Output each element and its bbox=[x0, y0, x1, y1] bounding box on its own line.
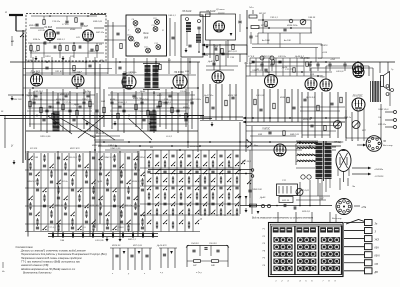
svg-text:Л4 6П3: Л4 6П3 bbox=[319, 44, 328, 47]
svg-text:СВ31 25,0: СВ31 25,0 bbox=[378, 109, 389, 111]
svg-text:R14 2к: R14 2к bbox=[33, 38, 41, 41]
svg-text:R6 1М: R6 1М bbox=[259, 13, 266, 15]
svg-text:КВ-II: КВ-II bbox=[375, 255, 380, 258]
svg-text:C15 51к: C15 51к bbox=[52, 21, 61, 23]
svg-text:C17 2к: C17 2к bbox=[64, 102, 72, 104]
svg-text:КВ48: КВ48 bbox=[70, 28, 76, 31]
svg-text:~127/220: ~127/220 bbox=[374, 176, 384, 178]
svg-text:C30 5,1: C30 5,1 bbox=[270, 17, 278, 19]
svg-text:КВ36 220к: КВ36 220к bbox=[287, 25, 298, 27]
svg-text:КВ16 30: КВ16 30 bbox=[112, 245, 121, 247]
svg-text:C43 5,1: C43 5,1 bbox=[168, 14, 176, 17]
svg-text:ДВ: ДВ bbox=[374, 271, 379, 274]
svg-text:Вид на клавишные переключатели: Вид на клавишные переключатели со сторон… bbox=[252, 217, 314, 220]
svg-text:Др10 6,8: Др10 6,8 bbox=[305, 97, 316, 99]
svg-text:C27 0,01: C27 0,01 bbox=[300, 190, 310, 192]
svg-text:С49 30: С49 30 bbox=[308, 16, 316, 19]
svg-text:Ав 1986: Ав 1986 bbox=[261, 39, 271, 42]
svg-text:СВ: СВ bbox=[375, 263, 379, 266]
svg-text:Л7 5Ц4С: Л7 5Ц4С bbox=[333, 141, 344, 144]
svg-text:C43 25,0: C43 25,0 bbox=[34, 90, 44, 93]
svg-text:КВ10 220к: КВ10 220к bbox=[190, 146, 201, 148]
svg-text:Блок: Блок bbox=[143, 32, 149, 35]
svg-text:СВ36 100: СВ36 100 bbox=[252, 189, 263, 191]
svg-text:СВ29 100: СВ29 100 bbox=[262, 56, 273, 58]
svg-text:СВ1 470: СВ1 470 bbox=[55, 70, 64, 73]
svg-text:Др43: Др43 bbox=[139, 90, 146, 93]
svg-text:Др15 470: Др15 470 bbox=[156, 244, 167, 247]
svg-text:Лм: Лм bbox=[351, 186, 355, 188]
svg-text:R1 2к: R1 2к bbox=[62, 181, 69, 183]
svg-text:КВ28 1М: КВ28 1М bbox=[228, 95, 237, 97]
svg-text:С54 051: С54 051 bbox=[191, 242, 199, 245]
svg-text:Л1 6К3: Л1 6К3 bbox=[43, 26, 53, 29]
svg-text:Вид снизу: Вид снизу bbox=[332, 217, 343, 220]
svg-text:C48 0,1: C48 0,1 bbox=[108, 144, 116, 147]
svg-text:СВ42 5,1: СВ42 5,1 bbox=[104, 156, 114, 159]
svg-text:Детали со знаком(*) отмечены т: Детали со знаком(*) отмечены токами выбо… bbox=[20, 250, 86, 253]
svg-text:Л 6П3С: Л 6П3С bbox=[261, 129, 270, 131]
svg-text:х Гр у: х Гр у bbox=[195, 272, 203, 274]
svg-text:+250/30в: +250/30в bbox=[374, 169, 384, 171]
svg-text:L7 6,8: L7 6,8 bbox=[248, 56, 255, 58]
svg-text:Переключатели для работы у диа: Переключатели для работы у диапазонов В … bbox=[21, 253, 107, 256]
svg-text:C11 470: C11 470 bbox=[285, 68, 294, 71]
svg-text:А: А bbox=[4, 10, 7, 14]
svg-text:R23 6,8: R23 6,8 bbox=[302, 211, 310, 213]
svg-text:КВ17 470: КВ17 470 bbox=[70, 147, 80, 150]
svg-text:КВ-I: КВ-I bbox=[375, 247, 380, 250]
svg-text:КВ36 0,1: КВ36 0,1 bbox=[132, 181, 142, 183]
svg-text:КВ16 2к: КВ16 2к bbox=[303, 119, 312, 121]
svg-text:КВ7 0,01: КВ7 0,01 bbox=[228, 51, 238, 53]
svg-text:Л3 6А10: Л3 6А10 bbox=[181, 10, 192, 13]
svg-text:Др6 5,1: Др6 5,1 bbox=[29, 51, 38, 53]
svg-text:C5 2к: C5 2к bbox=[180, 91, 187, 93]
svg-text:L18 30: L18 30 bbox=[38, 30, 45, 32]
svg-text:Ав 198: Ав 198 bbox=[283, 39, 291, 42]
svg-text:Л3 6А10: Л3 6А10 bbox=[205, 10, 216, 13]
svg-text:L30 51к: L30 51к bbox=[278, 56, 287, 58]
svg-text:Др39: Др39 bbox=[73, 104, 80, 106]
svg-text:Напряжения Анатоля В схемы изм: Напряжения Анатоля В схемы измерены приб… bbox=[21, 257, 82, 260]
svg-text:R41 0,1: R41 0,1 bbox=[128, 238, 136, 241]
svg-text:L26 6,8: L26 6,8 bbox=[336, 71, 344, 73]
svg-text:КВ45 0,1: КВ45 0,1 bbox=[118, 101, 128, 104]
svg-text:СВ20: СВ20 bbox=[118, 227, 124, 229]
svg-text:C25 1М: C25 1М bbox=[244, 63, 252, 65]
svg-text:Шкайка напряжения на Лд (ВкмЕ): Шкайка напряжения на Лд (ВкмЕ) зависит о… bbox=[21, 268, 75, 271]
svg-text:Л6 6П3С: Л6 6П3С bbox=[352, 95, 363, 98]
svg-text:С20м: С20м bbox=[203, 55, 209, 57]
svg-text:Др34 6,8: Др34 6,8 bbox=[161, 101, 172, 104]
svg-text:Д1 типа: Д1 типа bbox=[215, 9, 225, 11]
svg-text:C17 5,1: C17 5,1 bbox=[48, 227, 56, 229]
svg-text:Л4 6Х6С: Л4 6Х6С bbox=[173, 71, 184, 74]
svg-text:L5 0,1: L5 0,1 bbox=[166, 136, 173, 138]
svg-text:СВ24 0,01: СВ24 0,01 bbox=[88, 50, 99, 53]
svg-text:Др27 51к: Др27 51к bbox=[203, 95, 214, 97]
svg-text:Вид снизу: Вид снизу bbox=[383, 144, 394, 147]
svg-text:R1 100: R1 100 bbox=[30, 148, 38, 150]
svg-text:Ад1: Ад1 bbox=[229, 166, 235, 169]
svg-text:Др35: Др35 bbox=[96, 181, 103, 183]
svg-text:ТТ-1 при нажатой клавиши (ВкВ): ТТ-1 при нажатой клавиши (ВкВ) истиралис… bbox=[21, 260, 81, 263]
svg-text:КВ38 2к: КВ38 2к bbox=[96, 133, 105, 135]
svg-text:R48 0,05: R48 0,05 bbox=[290, 133, 300, 136]
svg-text:КВ17: КВ17 bbox=[157, 95, 163, 97]
svg-text:КВ35 470: КВ35 470 bbox=[83, 39, 93, 42]
svg-text:КВ32 100: КВ32 100 bbox=[12, 99, 22, 101]
svg-text:Р1: Р1 bbox=[263, 229, 265, 231]
svg-text:СВ15 0,05: СВ15 0,05 bbox=[40, 136, 51, 138]
svg-text:+250: +250 bbox=[330, 59, 336, 61]
svg-text:+105: +105 bbox=[322, 52, 328, 54]
svg-text:R36 5,1: R36 5,1 bbox=[57, 39, 65, 41]
svg-text:КВ7 0,05: КВ7 0,05 bbox=[133, 245, 143, 247]
svg-text:1: 1 bbox=[275, 281, 276, 283]
svg-text:С4: С4 bbox=[132, 18, 134, 21]
svg-text:С55 051: С55 051 bbox=[209, 243, 217, 245]
svg-text:L30 0,01: L30 0,01 bbox=[256, 95, 265, 97]
svg-text:КВ36: КВ36 bbox=[280, 97, 286, 99]
svg-text:СВ46 0,05: СВ46 0,05 bbox=[110, 147, 121, 150]
svg-text:Ив: Ив bbox=[2, 271, 4, 273]
svg-text:Л2а 6А7: Л2а 6А7 bbox=[71, 71, 82, 74]
svg-text:Включатель Контакты: Включатель Контакты bbox=[23, 271, 51, 274]
svg-text:СВ18: СВ18 bbox=[45, 56, 51, 58]
svg-text:≈15в: ≈15в bbox=[361, 206, 367, 209]
svg-text:R5 25,0: R5 25,0 bbox=[69, 157, 77, 159]
svg-text:УКЗ: УКЗ bbox=[375, 239, 380, 242]
svg-text:СВ34 0,1: СВ34 0,1 bbox=[27, 180, 37, 183]
svg-text:Др36 5,1: Др36 5,1 bbox=[294, 56, 305, 58]
svg-text:R12 51к: R12 51к bbox=[378, 124, 387, 126]
svg-text:L16 2к: L16 2к bbox=[130, 72, 137, 74]
svg-text:L33 0,05: L33 0,05 bbox=[95, 240, 104, 242]
svg-text:КВ7 25,0: КВ7 25,0 bbox=[242, 161, 252, 163]
svg-text:R20 30: R20 30 bbox=[282, 200, 290, 202]
svg-text:СВ14: СВ14 bbox=[139, 156, 145, 159]
svg-text:R38 0,05: R38 0,05 bbox=[93, 21, 103, 23]
svg-text:6К8: 6К8 bbox=[144, 37, 149, 40]
svg-text:Др47 5,1: Др47 5,1 bbox=[207, 60, 218, 63]
svg-text:Л2 6А7: Л2 6А7 bbox=[79, 25, 89, 28]
svg-text:Др40: Др40 bbox=[259, 196, 266, 199]
svg-text:нажатой клавиши (СВ): нажатой клавиши (СВ) bbox=[21, 264, 49, 267]
svg-text:L7 51к: L7 51к bbox=[62, 24, 69, 26]
svg-text:КВ37 6,8: КВ37 6,8 bbox=[60, 94, 70, 96]
svg-text:R47 51к: R47 51к bbox=[96, 31, 105, 34]
